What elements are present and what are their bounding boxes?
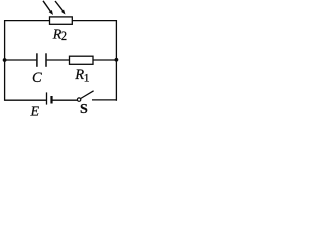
wire top side bbox=[5, 20, 117, 22]
svg-text:S: S bbox=[80, 102, 88, 117]
resistor R1 body bbox=[70, 56, 94, 64]
label R1 bbox=[74, 67, 89, 84]
wire right rail bbox=[115, 20, 117, 101]
junction node right bbox=[115, 58, 119, 62]
svg-text:C: C bbox=[32, 70, 42, 86]
label R2 bbox=[52, 28, 67, 44]
wire middle center bbox=[47, 59, 70, 61]
wire middle right bbox=[93, 59, 116, 61]
photoresistor R2 body bbox=[50, 17, 73, 24]
wire left rail bbox=[4, 20, 6, 101]
wire bottom left bbox=[5, 99, 47, 101]
wire bottom middle bbox=[52, 99, 78, 101]
svg-text:2: 2 bbox=[61, 29, 67, 43]
light arrow 2 bbox=[55, 1, 66, 15]
light arrow 1 bbox=[43, 1, 53, 15]
battery E short plate bbox=[50, 96, 52, 104]
capacitor C left plate bbox=[36, 53, 38, 67]
svg-text:E: E bbox=[30, 104, 40, 119]
svg-text:1: 1 bbox=[84, 70, 90, 84]
capacitor C right plate bbox=[45, 53, 47, 67]
battery E long plate bbox=[46, 92, 48, 104]
junction node left bbox=[3, 58, 7, 62]
wire bottom right bbox=[92, 99, 116, 101]
wire middle left bbox=[5, 59, 37, 61]
switch S pivot circle bbox=[77, 98, 80, 101]
switch S lever bbox=[81, 91, 94, 99]
